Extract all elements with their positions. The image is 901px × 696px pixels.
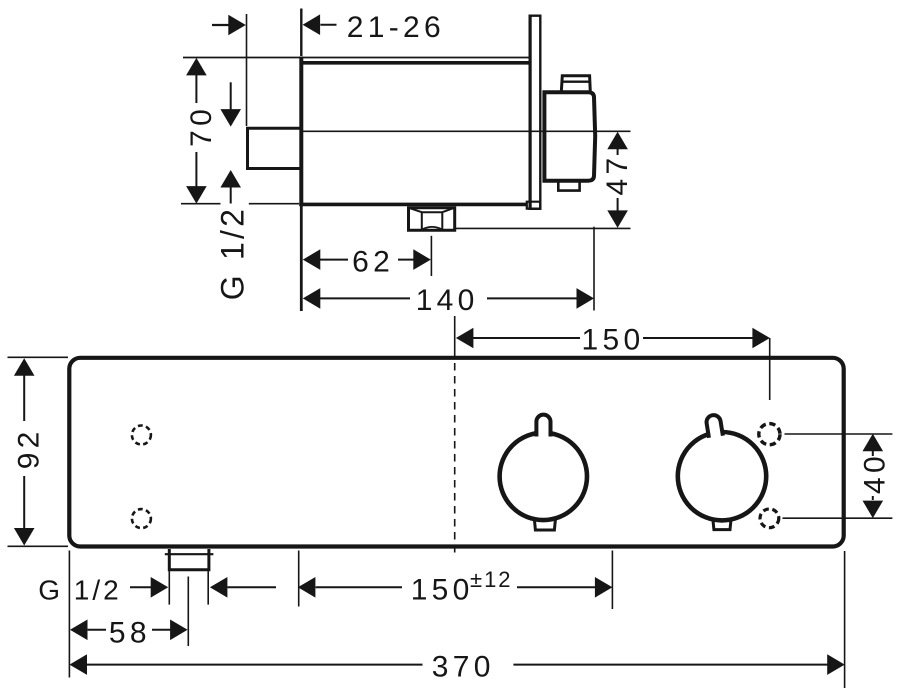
dim 70 bottom extension segments [181, 203, 299, 205]
svg-text:150: 150 [411, 574, 474, 607]
outlet stub left [248, 128, 302, 168]
dim 150+-12 left extension [298, 551, 300, 607]
knob left circle [500, 433, 587, 520]
wall plate [530, 16, 541, 209]
dim 62 line + arrows [320, 259, 414, 261]
knob left bottom tab [534, 520, 555, 531]
knob top tab inner line [562, 80, 590, 82]
right screw hole top (dashed) [759, 424, 780, 445]
leader line bottom screw hole [783, 517, 893, 519]
spigot collar line + stubs [165, 553, 214, 555]
svg-text:40: 40 [859, 452, 892, 494]
svg-text:21-26: 21-26 [347, 11, 445, 44]
spigot center line [187, 577, 189, 647]
panel right edge extension down [844, 551, 846, 688]
body mid seam line extended right for 47 dim [303, 130, 631, 132]
dim 40 vertical line + arrows [872, 451, 874, 500]
G1/2 bottom left-pointing arrow [228, 586, 277, 588]
dim 140 body edge extension down [300, 206, 303, 311]
dim 47 bottom extension [455, 227, 631, 229]
dim 140 knob face extension [593, 227, 595, 311]
dim 92 line + arrows [23, 375, 25, 529]
panel outline [69, 358, 843, 547]
leader line top screw hole [785, 433, 893, 435]
knob left stem [536, 415, 550, 437]
knob right bottom tab [713, 520, 731, 530]
knob bottom tab [558, 181, 579, 191]
dim 70 line + arrows [195, 75, 197, 188]
svg-text:370: 370 [432, 651, 495, 684]
center axis dashed [454, 363, 456, 553]
dim 21-26 right arrow [320, 24, 336, 26]
dim 150 right extension to screw hole [769, 338, 771, 400]
svg-text:58: 58 [109, 617, 151, 650]
dim 47 line + arrows [617, 149, 619, 212]
nut facet lines [410, 208, 454, 229]
right screw hole bottom (dashed) [760, 509, 779, 528]
dim 150 top line + arrows [473, 337, 753, 339]
svg-text:62: 62 [352, 246, 394, 279]
dim 140 line + arrows [320, 297, 577, 299]
spigot side extensions [169, 571, 208, 605]
body top face line with left extension [183, 57, 530, 59]
dim 370 line + arrows [87, 664, 828, 666]
dim 150+-12 right extension [611, 551, 613, 610]
svg-text:G 1/2: G 1/2 [215, 206, 251, 300]
svg-text:47: 47 [601, 154, 634, 196]
svg-text:±12: ±12 [470, 567, 513, 592]
dim 62 nut center extension [430, 236, 432, 276]
svg-text:G 1/2: G 1/2 [38, 575, 121, 606]
dim 21-26 left arrow [212, 24, 229, 26]
G1/2 bottom right-pointing arrow [130, 586, 151, 588]
svg-text:70: 70 [185, 105, 218, 147]
knob right circle [678, 432, 766, 520]
knob right stem (tilted) [706, 414, 723, 438]
spigot under panel [169, 549, 209, 570]
dim 21-26 right extension (body edge up) [300, 9, 302, 57]
body bottom edge [299, 203, 526, 207]
wall plate bottom foot [527, 202, 541, 209]
nut bottom arc [423, 227, 442, 229]
left screw hole top (dashed) [132, 426, 151, 445]
body left edge [299, 57, 303, 207]
dim 21-26 left extension line [246, 14, 248, 126]
svg-text:150: 150 [582, 324, 645, 357]
svg-text:92: 92 [12, 427, 45, 469]
panel left edge extension down [68, 551, 70, 678]
center axis solid above panel [454, 316, 456, 356]
G1/2 top pointer line + arrows [230, 82, 232, 110]
dim 92 extensions [8, 357, 69, 546]
left screw hole bottom (dashed) [132, 509, 151, 528]
dim 150+-12 line + arrows [316, 586, 402, 588]
knob top tab [561, 76, 590, 92]
knob body (side view) [544, 92, 595, 181]
nut outline [409, 208, 455, 231]
svg-text:140: 140 [416, 284, 479, 317]
body top seam (thick) [301, 61, 530, 65]
wall plate left edge heavy [529, 16, 532, 209]
dim 58 line + arrows [88, 629, 171, 631]
